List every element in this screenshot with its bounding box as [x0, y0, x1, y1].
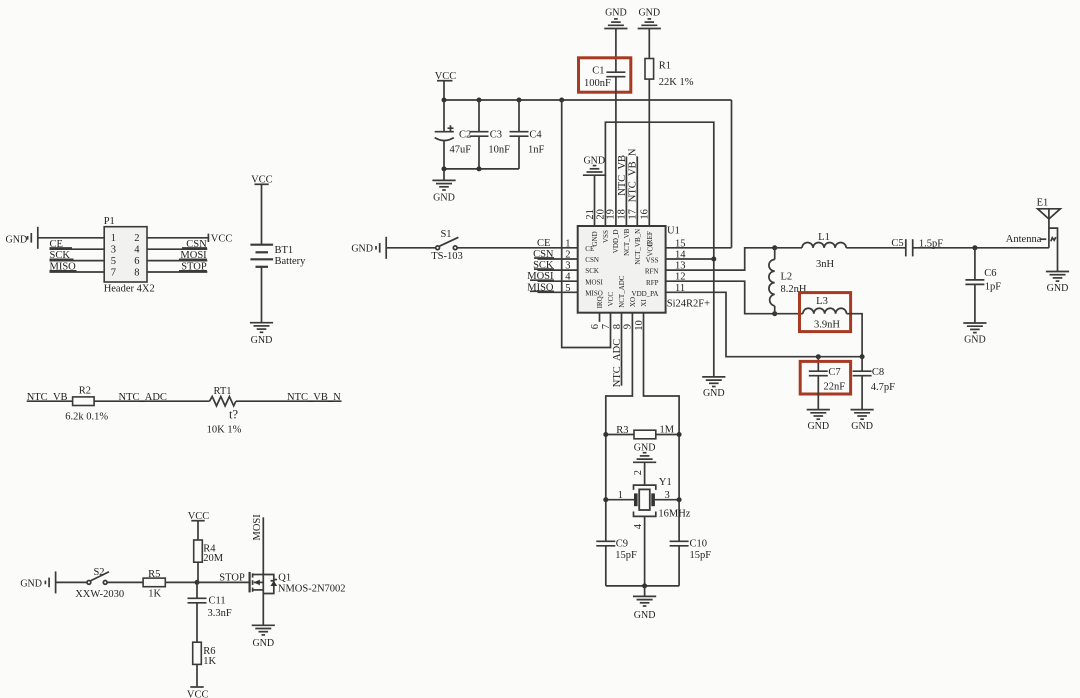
wire R4 to node [197, 562, 199, 582]
node CSN (header) [182, 239, 207, 250]
svg-text:C8: C8 [872, 367, 884, 378]
svg-text:3nH: 3nH [816, 259, 835, 270]
svg-text:9: 9 [623, 324, 634, 329]
power VCC (bottom) [187, 687, 209, 698]
wire C4 top [518, 100, 520, 132]
wire C7 top [817, 357, 819, 372]
wire L1 to C5 [846, 247, 906, 249]
connector P1 Header 4X2 [104, 216, 155, 295]
junction bottom rail [642, 583, 647, 588]
wire L2 top to L1 [775, 247, 802, 249]
svg-text:XO: XO [629, 297, 637, 307]
svg-text:VDD_D: VDD_D [612, 229, 620, 253]
svg-text:16MHz: 16MHz [658, 508, 690, 519]
svg-text:5: 5 [111, 256, 116, 267]
node CE (header) [50, 239, 73, 250]
svg-text:20M: 20M [203, 553, 224, 564]
pin 10 / wire XI [634, 313, 679, 435]
wire VCC rail [444, 99, 732, 101]
svg-text:BT1: BT1 [275, 245, 294, 256]
svg-text:15: 15 [675, 238, 686, 249]
inductor L1 [802, 232, 846, 270]
antenna E1 [1037, 198, 1061, 248]
svg-text:NTC_ADC: NTC_ADC [119, 392, 167, 403]
switch S2 XXW-2030 [75, 567, 124, 600]
pin 11 / wire VDD_PA [666, 283, 863, 357]
svg-text:XI: XI [640, 299, 648, 307]
svg-text:VDD_PA: VDD_PA [632, 290, 659, 298]
svg-text:NMOS-2N7002: NMOS-2N7002 [278, 584, 346, 595]
wire C9 to bottom rail [605, 546, 607, 586]
svg-text:Y1: Y1 [659, 477, 672, 488]
svg-text:Q1: Q1 [278, 573, 291, 584]
wire antenna branch to GND [1049, 228, 1058, 271]
svg-text:L2: L2 [781, 272, 793, 283]
power VCC (rail) [435, 71, 457, 82]
svg-text:MOSI: MOSI [585, 278, 603, 286]
svg-text:10: 10 [634, 320, 645, 331]
wire R6 to VCC [196, 664, 198, 687]
svg-text:NCT_VB_N: NCT_VB_N [634, 229, 642, 265]
svg-text:Battery: Battery [275, 256, 307, 267]
svg-text:S2: S2 [93, 567, 104, 578]
svg-text:GND: GND [638, 8, 660, 19]
svg-text:NCT_ADC: NCT_ADC [618, 275, 626, 308]
pin 15 / wire VCC [666, 100, 732, 249]
wire GND to S2 [56, 581, 87, 583]
wire to GND [644, 586, 646, 597]
svg-text:XXW-2030: XXW-2030 [75, 589, 124, 600]
wire S2 to R5 [107, 581, 143, 583]
junction bottom rail/C2 [442, 166, 447, 171]
junction C8 [860, 354, 865, 359]
svg-text:1: 1 [565, 238, 570, 249]
junction Y1 right [677, 497, 682, 502]
wire GND to S1 [386, 247, 436, 249]
wire C7 to GND [817, 376, 819, 410]
svg-text:22K 1%: 22K 1% [659, 77, 694, 88]
svg-text:7: 7 [111, 267, 116, 278]
wire C3 bottom [478, 136, 480, 169]
ground (sideways, S2) [20, 571, 55, 593]
junction (STOP node) [195, 580, 200, 585]
svg-text:RFP: RFP [646, 279, 659, 287]
svg-text:R2: R2 [79, 386, 91, 397]
junction rail/pin7 feed [559, 98, 564, 103]
svg-text:2: 2 [134, 233, 139, 244]
pin 12 / wire RFP [666, 272, 775, 314]
svg-text:1nF: 1nF [528, 144, 545, 155]
svg-text:VCC: VCC [646, 242, 654, 257]
pin 17 / node NTC_VB_N stub [628, 148, 639, 226]
node CE / wire S1 to U1 pin1 [457, 238, 578, 249]
wire SCK to header pin5 [50, 260, 105, 262]
resistor R1 [645, 59, 694, 89]
svg-text:NTC_ADC: NTC_ADC [612, 339, 623, 387]
resistor R5 [143, 569, 165, 599]
battery BT1 [250, 245, 273, 267]
svg-text:8: 8 [134, 267, 139, 278]
node STOP / wire node to Q1 gate [197, 573, 249, 584]
svg-text:15pF: 15pF [615, 550, 637, 561]
wire C8 to GND [861, 376, 863, 410]
highlight box C7 [800, 361, 850, 394]
svg-text:11: 11 [675, 283, 685, 294]
svg-text:14: 14 [675, 250, 686, 261]
capacitor C6 [965, 268, 1001, 292]
junction bottom rail/C3 [477, 166, 482, 171]
svg-text:VCC: VCC [211, 234, 233, 245]
svg-text:C6: C6 [984, 268, 996, 279]
svg-text:Header 4X2: Header 4X2 [104, 284, 155, 295]
highlight box C1 [579, 58, 631, 92]
wire node to C11 [196, 582, 198, 598]
svg-text:4: 4 [633, 523, 644, 529]
capacitor C9 [596, 538, 637, 561]
ground (C2C3C4) [432, 180, 455, 203]
capacitor C4 [510, 129, 545, 155]
pin 14 / wire VSS [666, 250, 714, 261]
ground (pin 21, inverted) [583, 156, 606, 176]
svg-text:1: 1 [111, 233, 116, 244]
ground (battery) [250, 323, 273, 346]
svg-text:C1: C1 [592, 66, 604, 77]
junction VSS/pin14 [711, 257, 716, 262]
svg-text:3.3nF: 3.3nF [208, 608, 232, 619]
svg-text:NTC_VB: NTC_VB [617, 155, 628, 196]
svg-text:C2: C2 [459, 130, 471, 141]
svg-text:GND: GND [252, 638, 274, 649]
svg-text:2: 2 [633, 470, 644, 475]
wire C2 bottom [443, 141, 445, 169]
node MOSI / wire to pin4 [527, 271, 577, 282]
wire CE to header pin3 [50, 248, 105, 250]
svg-text:L3: L3 [816, 296, 828, 307]
svg-text:L1: L1 [818, 232, 830, 243]
svg-text:NTC_VB_N: NTC_VB_N [287, 392, 341, 403]
resistor R6 [193, 642, 217, 667]
wire header pin8 [147, 271, 207, 273]
ground (crystal bottom) [633, 596, 656, 621]
wire header pin4 [147, 248, 207, 250]
svg-text:1: 1 [618, 490, 623, 501]
svg-text:NCT_VB: NCT_VB [623, 228, 631, 256]
wire R2 to RT1 / node NTC_ADC [94, 392, 209, 403]
wire RT1 to NTC_VB_N / node NTC_VB_N [236, 392, 342, 403]
wire GND to R1 [648, 29, 650, 59]
svg-text:R3: R3 [616, 425, 628, 436]
svg-text:GND: GND [634, 443, 656, 454]
wire GND to Y1 pin2 [644, 462, 646, 485]
svg-text:STOP: STOP [219, 573, 245, 584]
svg-text:47uF: 47uF [450, 145, 472, 156]
svg-text:P1: P1 [104, 216, 115, 227]
svg-text:Antenna: Antenna [1006, 234, 1042, 245]
svg-text:IRQ: IRQ [596, 296, 604, 308]
svg-text:3.9nH: 3.9nH [814, 320, 840, 331]
svg-text:C9: C9 [616, 538, 628, 549]
svg-text:3: 3 [665, 490, 670, 501]
svg-text:1K: 1K [148, 589, 161, 600]
svg-text:S1: S1 [440, 229, 451, 240]
node MISO / wire to pin5 [527, 282, 577, 293]
junction rail/C3 [477, 98, 482, 103]
svg-text:4.7pF: 4.7pF [871, 382, 895, 393]
capacitor C7 [809, 367, 845, 392]
ground (sideways) at header pin 1 [6, 227, 38, 249]
wire C2 top [443, 100, 445, 132]
wire C3 top [478, 100, 480, 132]
ground (VSS) [702, 377, 725, 399]
svg-text:10K 1%: 10K 1% [207, 425, 242, 436]
node Antenna label [1006, 234, 1056, 245]
svg-text:6.2k 0.1%: 6.2k 0.1% [65, 412, 108, 423]
wire VCC to R4 [197, 521, 199, 540]
svg-text:GND: GND [433, 193, 455, 204]
svg-text:VCC: VCC [187, 690, 209, 698]
wire R5 to node [165, 581, 197, 583]
op-amp U1 Si24R2F+ body [578, 226, 710, 313]
node CSN / wire to pin2 [533, 249, 578, 260]
ground (crystal top, inverted) [633, 443, 656, 463]
svg-text:1pF: 1pF [985, 282, 1002, 293]
power VCC (battery) [251, 175, 273, 186]
pin 6 stub [590, 313, 601, 329]
wire C8 top [861, 357, 863, 372]
switch S1 TS-103 [431, 229, 463, 262]
svg-text:GND: GND [20, 578, 42, 589]
svg-text:6: 6 [590, 324, 601, 329]
wire right rail (XI) [678, 435, 680, 542]
ground (C7) [807, 410, 830, 432]
resistor R4 [194, 540, 224, 564]
svg-text:E1: E1 [1037, 198, 1049, 209]
svg-text:GND: GND [605, 8, 627, 19]
svg-text:GND: GND [591, 231, 599, 246]
svg-text:10nF: 10nF [488, 144, 510, 155]
ground (sideways, S1) [351, 237, 386, 259]
wire L3 to C8 node [847, 314, 863, 357]
svg-text:GND: GND [634, 610, 656, 621]
svg-text:VSS: VSS [602, 230, 610, 243]
svg-text:18: 18 [617, 209, 628, 220]
svg-text:C3: C3 [490, 129, 502, 140]
ground (R1, inverted) [638, 8, 661, 29]
wire C6 top [974, 248, 976, 280]
ground (Q1) [252, 625, 275, 649]
svg-text:VCC: VCC [607, 292, 615, 307]
inductor L3 [775, 296, 847, 330]
svg-text:GND: GND [6, 234, 28, 245]
junction rail/C4 [517, 98, 522, 103]
node MOSI (header) [179, 250, 207, 261]
svg-text:GND: GND [351, 243, 373, 254]
svg-text:Si24R2F+: Si24R2F+ [667, 298, 710, 309]
svg-text:CSN: CSN [585, 256, 599, 264]
pin 4 label / wire Y1 bottom [633, 516, 645, 586]
highlight box L3 [800, 293, 851, 332]
capacitor C3 [470, 129, 511, 155]
pin 13 / wire RFN [666, 248, 775, 272]
capacitor C10 [670, 538, 712, 561]
svg-text:GND: GND [964, 334, 986, 345]
wire VCC feed down to pin7 [562, 100, 611, 348]
wire bottom rail [444, 168, 519, 170]
pin 9 / wire XO [606, 313, 634, 435]
inductor L2 [769, 248, 807, 314]
svg-text:RFN: RFN [645, 268, 659, 276]
wire VCC stem [443, 81, 445, 100]
wire C5 to antenna [913, 247, 1049, 249]
svg-text:t?: t? [229, 407, 238, 421]
svg-text:MOSI: MOSI [252, 514, 263, 541]
wire NTC_VB to R2 [27, 400, 73, 402]
junction C6 [972, 245, 977, 250]
svg-text:GND: GND [1047, 283, 1069, 294]
capacitor C5 [891, 238, 943, 257]
svg-text:R5: R5 [148, 569, 160, 580]
node MISO (header) [50, 262, 77, 273]
capacitor C11 [188, 596, 232, 620]
svg-text:C11: C11 [209, 596, 226, 607]
node SCK (header) [50, 250, 74, 261]
svg-text:C10: C10 [690, 538, 708, 549]
svg-text:4: 4 [134, 245, 140, 256]
svg-text:13: 13 [675, 261, 686, 272]
svg-text:100nF: 100nF [584, 78, 611, 89]
pin 18 / node NTC_VB stub [617, 155, 628, 226]
node SCK / wire to pin3 [533, 260, 578, 271]
pin 20 / VSS loop wire [596, 122, 714, 377]
node STOP (header) [179, 262, 207, 273]
svg-text:R1: R1 [659, 61, 671, 72]
svg-text:21: 21 [585, 209, 596, 220]
resistor R2 [65, 386, 108, 423]
junction R3 left [603, 432, 608, 437]
svg-text:GND: GND [807, 421, 829, 432]
thermistor RT1 [207, 386, 242, 436]
ground (C8) [851, 410, 874, 432]
wire header pin2 to VCC [147, 237, 208, 239]
svg-text:RT1: RT1 [213, 386, 231, 397]
pin 1 label / wire Y1 left [606, 490, 634, 501]
wire C10 to bottom rail [678, 546, 680, 586]
resistor R3 [606, 425, 679, 439]
ground (C6) [963, 323, 986, 345]
svg-text:6: 6 [134, 256, 139, 267]
pin 3 label / wire Y1 right [655, 490, 679, 501]
svg-text:12: 12 [675, 272, 686, 283]
wire battery to GND [261, 267, 263, 323]
wire to GND [443, 169, 445, 181]
junction C7 [816, 354, 821, 359]
wire Q1 source to GND [262, 590, 264, 625]
wire left rail (XO) [605, 435, 607, 542]
svg-text:17: 17 [628, 209, 639, 220]
ground (C1, inverted) [604, 8, 627, 29]
svg-text:22nF: 22nF [824, 382, 846, 393]
svg-text:C4: C4 [529, 129, 542, 140]
junction Y1 left [603, 497, 608, 502]
svg-text:7: 7 [601, 324, 612, 329]
svg-text:3: 3 [111, 245, 116, 256]
wire C1 to pin 19 [615, 77, 617, 226]
pin 8 / node NTC_ADC stub [612, 313, 623, 387]
svg-text:1K: 1K [203, 656, 216, 667]
capacitor C2 (polarized) [435, 125, 472, 155]
svg-text:C5: C5 [891, 238, 903, 249]
wire header pin6 [147, 260, 207, 262]
svg-text:8: 8 [612, 324, 623, 329]
svg-text:NTC_VB_N: NTC_VB_N [628, 148, 639, 202]
pin 21 / wire to GND [585, 175, 596, 226]
capacitor C1 [584, 66, 625, 90]
svg-text:GND: GND [583, 156, 605, 167]
svg-text:MISO: MISO [585, 289, 603, 297]
svg-text:C7: C7 [828, 367, 840, 378]
wire R1 to pin 16 [648, 79, 650, 226]
wire C4 bottom [518, 136, 520, 169]
svg-text:GND: GND [851, 421, 873, 432]
capacitor C8 [853, 367, 896, 393]
svg-text:GND: GND [703, 388, 725, 399]
node MOSI (Q1 drain) [252, 514, 263, 575]
junction R3 right [677, 432, 682, 437]
crystal Y1 16MHz [634, 477, 691, 520]
wire C6 to GND [974, 284, 976, 323]
svg-text:SCK: SCK [585, 267, 599, 275]
wire VCC to battery [261, 184, 263, 244]
svg-text:1M: 1M [660, 425, 675, 436]
svg-text:U1: U1 [667, 226, 680, 237]
junction L2 top [772, 245, 777, 250]
svg-text:TS-103: TS-103 [431, 251, 463, 262]
wire bottom rail [606, 585, 679, 587]
svg-text:CE: CE [537, 238, 550, 249]
wire header pin1 to GND [38, 237, 104, 239]
junction rail/C2 [442, 98, 447, 103]
svg-text:GND: GND [251, 335, 273, 346]
junction L2 bottom [772, 311, 777, 316]
svg-text:15pF: 15pF [690, 550, 712, 561]
svg-text:VSS: VSS [646, 257, 659, 265]
svg-text:19: 19 [606, 209, 617, 220]
wire C11 to R6 [196, 603, 198, 642]
wire MISO to header pin7 [50, 271, 105, 273]
power VCC (R4 top) [188, 511, 210, 522]
ground (antenna) [1046, 272, 1069, 294]
wire GND to C1 [615, 29, 617, 73]
power VCC (header) [208, 234, 232, 245]
transistor Q1 NMOS-2N7002 [250, 572, 346, 595]
